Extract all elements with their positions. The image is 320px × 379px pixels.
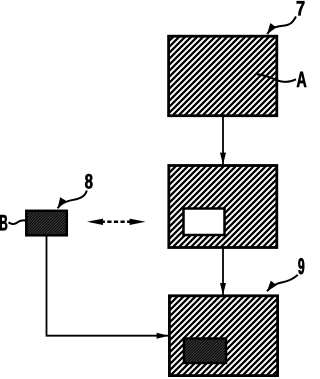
middle block [169, 166, 277, 248]
leader from B to box B [9, 220, 27, 224]
label 8 [85, 174, 92, 189]
leader from 9 to box 9 [267, 275, 298, 292]
leader from 7 to box A [267, 17, 296, 35]
dashed double-headed arrow [87, 219, 146, 225]
arrow from middle block to box 9 [222, 249, 224, 295]
label B [0, 215, 7, 230]
label 7 [297, 1, 305, 15]
label 9 [298, 258, 304, 274]
box 9 (bottom block) [169, 296, 277, 376]
inner white window of middle block [184, 209, 225, 236]
leader from 8 to box B [58, 191, 87, 209]
label A [297, 72, 307, 87]
arrow from box A to middle block [222, 117, 224, 165]
leader from A into box A [257, 74, 296, 81]
wire from box B down and right into box 9 [47, 236, 169, 336]
inner dark rectangle of bottom block [184, 339, 226, 364]
box A (block 7) [169, 36, 277, 116]
box B (block 8, small dark box) [26, 211, 67, 236]
